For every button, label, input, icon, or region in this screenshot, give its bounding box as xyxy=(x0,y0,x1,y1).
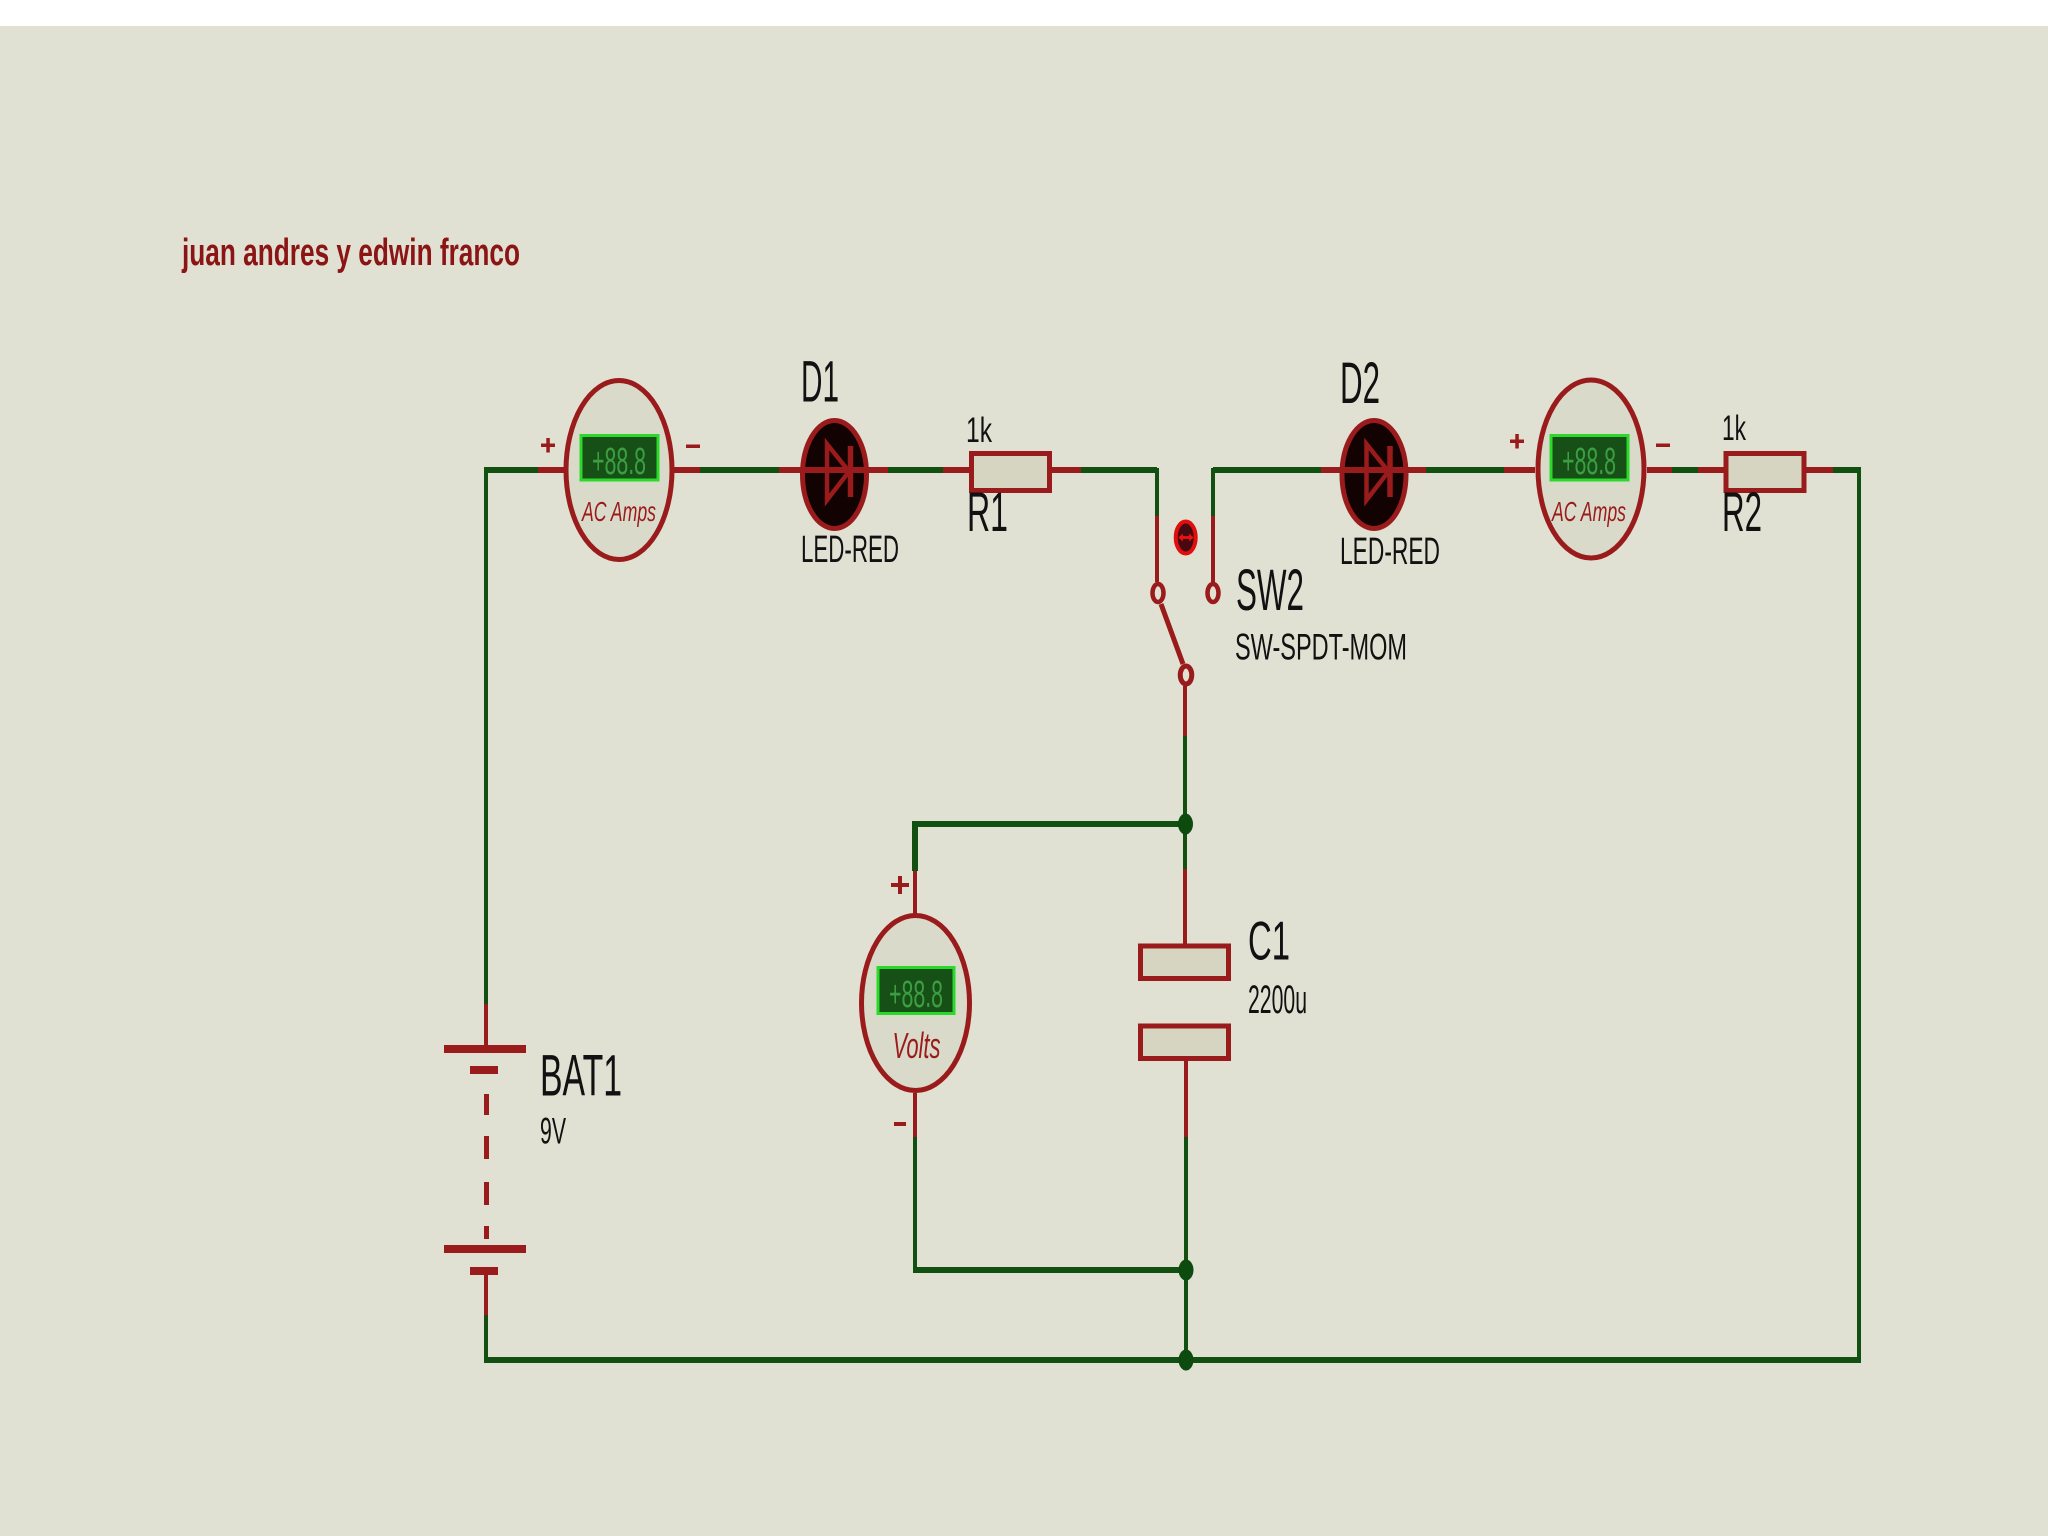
svg-text:juan andres y edwin franco: juan andres y edwin franco xyxy=(181,232,520,274)
svg-text:1k: 1k xyxy=(1722,409,1746,448)
svg-text:D1: D1 xyxy=(801,350,839,415)
svg-text:BAT1: BAT1 xyxy=(540,1044,622,1109)
svg-text:LED-RED: LED-RED xyxy=(801,529,899,571)
svg-text:AC Amps: AC Amps xyxy=(1551,496,1626,527)
svg-text:R2: R2 xyxy=(1722,480,1762,543)
svg-text:2200u: 2200u xyxy=(1248,978,1307,1022)
svg-text:SW-SPDT-MOM: SW-SPDT-MOM xyxy=(1235,627,1407,668)
svg-text:+88.8: +88.8 xyxy=(592,441,646,483)
svg-text:R1: R1 xyxy=(967,480,1008,543)
svg-text:SW2: SW2 xyxy=(1236,558,1304,623)
svg-text:AC Amps: AC Amps xyxy=(581,496,656,527)
svg-text:Volts: Volts xyxy=(893,1025,941,1066)
svg-text:C1: C1 xyxy=(1248,910,1290,972)
svg-text:1k: 1k xyxy=(966,411,992,450)
svg-text:D2: D2 xyxy=(1340,351,1380,416)
svg-text:+88.8: +88.8 xyxy=(1562,441,1616,483)
svg-text:9V: 9V xyxy=(540,1111,566,1152)
svg-text:LED-RED: LED-RED xyxy=(1340,531,1440,573)
svg-text:+88.8: +88.8 xyxy=(889,974,943,1016)
